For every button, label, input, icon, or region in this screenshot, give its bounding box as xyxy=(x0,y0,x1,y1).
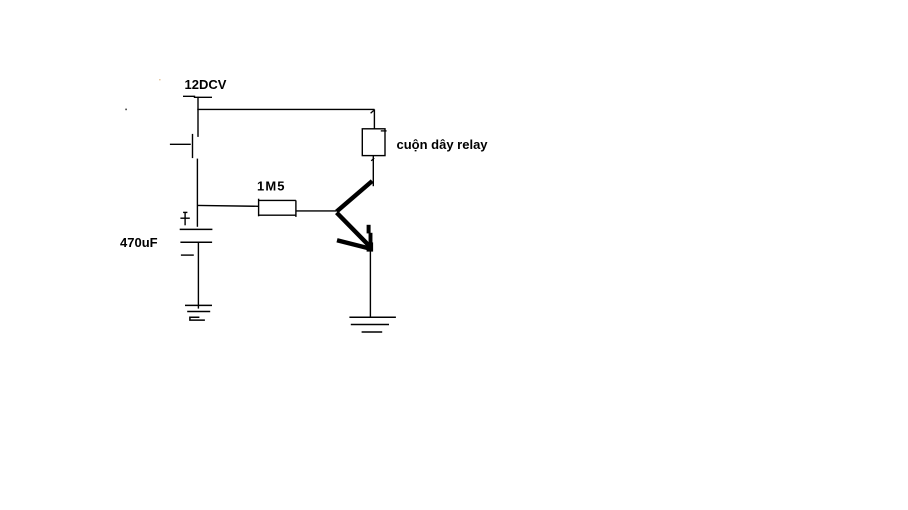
capacitor C1 top plate xyxy=(180,228,213,230)
svg-text:1M5: 1M5 xyxy=(257,179,286,194)
ground middle xyxy=(349,317,396,332)
svg-text:12DCV: 12DCV xyxy=(185,77,227,92)
switch bar xyxy=(192,134,194,158)
tick at relay box top-right xyxy=(381,130,387,132)
svg-text:470uF: 470uF xyxy=(120,235,158,250)
wire: base wire from rail to resistor xyxy=(197,204,258,207)
transistor Q1 collector stroke xyxy=(337,181,373,212)
wire: rail from switch to capacitor xyxy=(196,159,198,227)
wire: relay bottom lead to collector xyxy=(372,156,374,187)
tick at top-right corner xyxy=(371,110,374,113)
stray dot near 12DCV xyxy=(159,79,161,80)
wire: emitter to ground xyxy=(369,251,371,317)
relay coil box xyxy=(362,129,385,156)
transistor Q1 emitter stroke xyxy=(337,213,368,245)
ground left xyxy=(185,305,212,320)
wire: resistor to transistor base xyxy=(296,210,336,212)
capacitor minus sign xyxy=(181,254,194,256)
wire: capacitor to ground xyxy=(197,242,199,308)
wire: top horizontal to relay xyxy=(197,108,374,110)
resistor R1 box xyxy=(259,199,296,217)
transistor Q1 emitter arrowhead xyxy=(337,225,373,252)
wire: relay top lead xyxy=(373,109,375,129)
supply terminal bar xyxy=(183,96,212,97)
tick on relay bottom lead xyxy=(371,158,374,161)
stray dot left of top wire xyxy=(125,109,127,111)
capacitor plus sign xyxy=(180,212,189,225)
wire: supply rail down from terminal xyxy=(197,97,199,137)
switch left lead xyxy=(170,143,191,145)
capacitor C1 bottom plate xyxy=(180,241,212,243)
svg-text:cuộn dây relay: cuộn dây relay xyxy=(397,137,489,152)
